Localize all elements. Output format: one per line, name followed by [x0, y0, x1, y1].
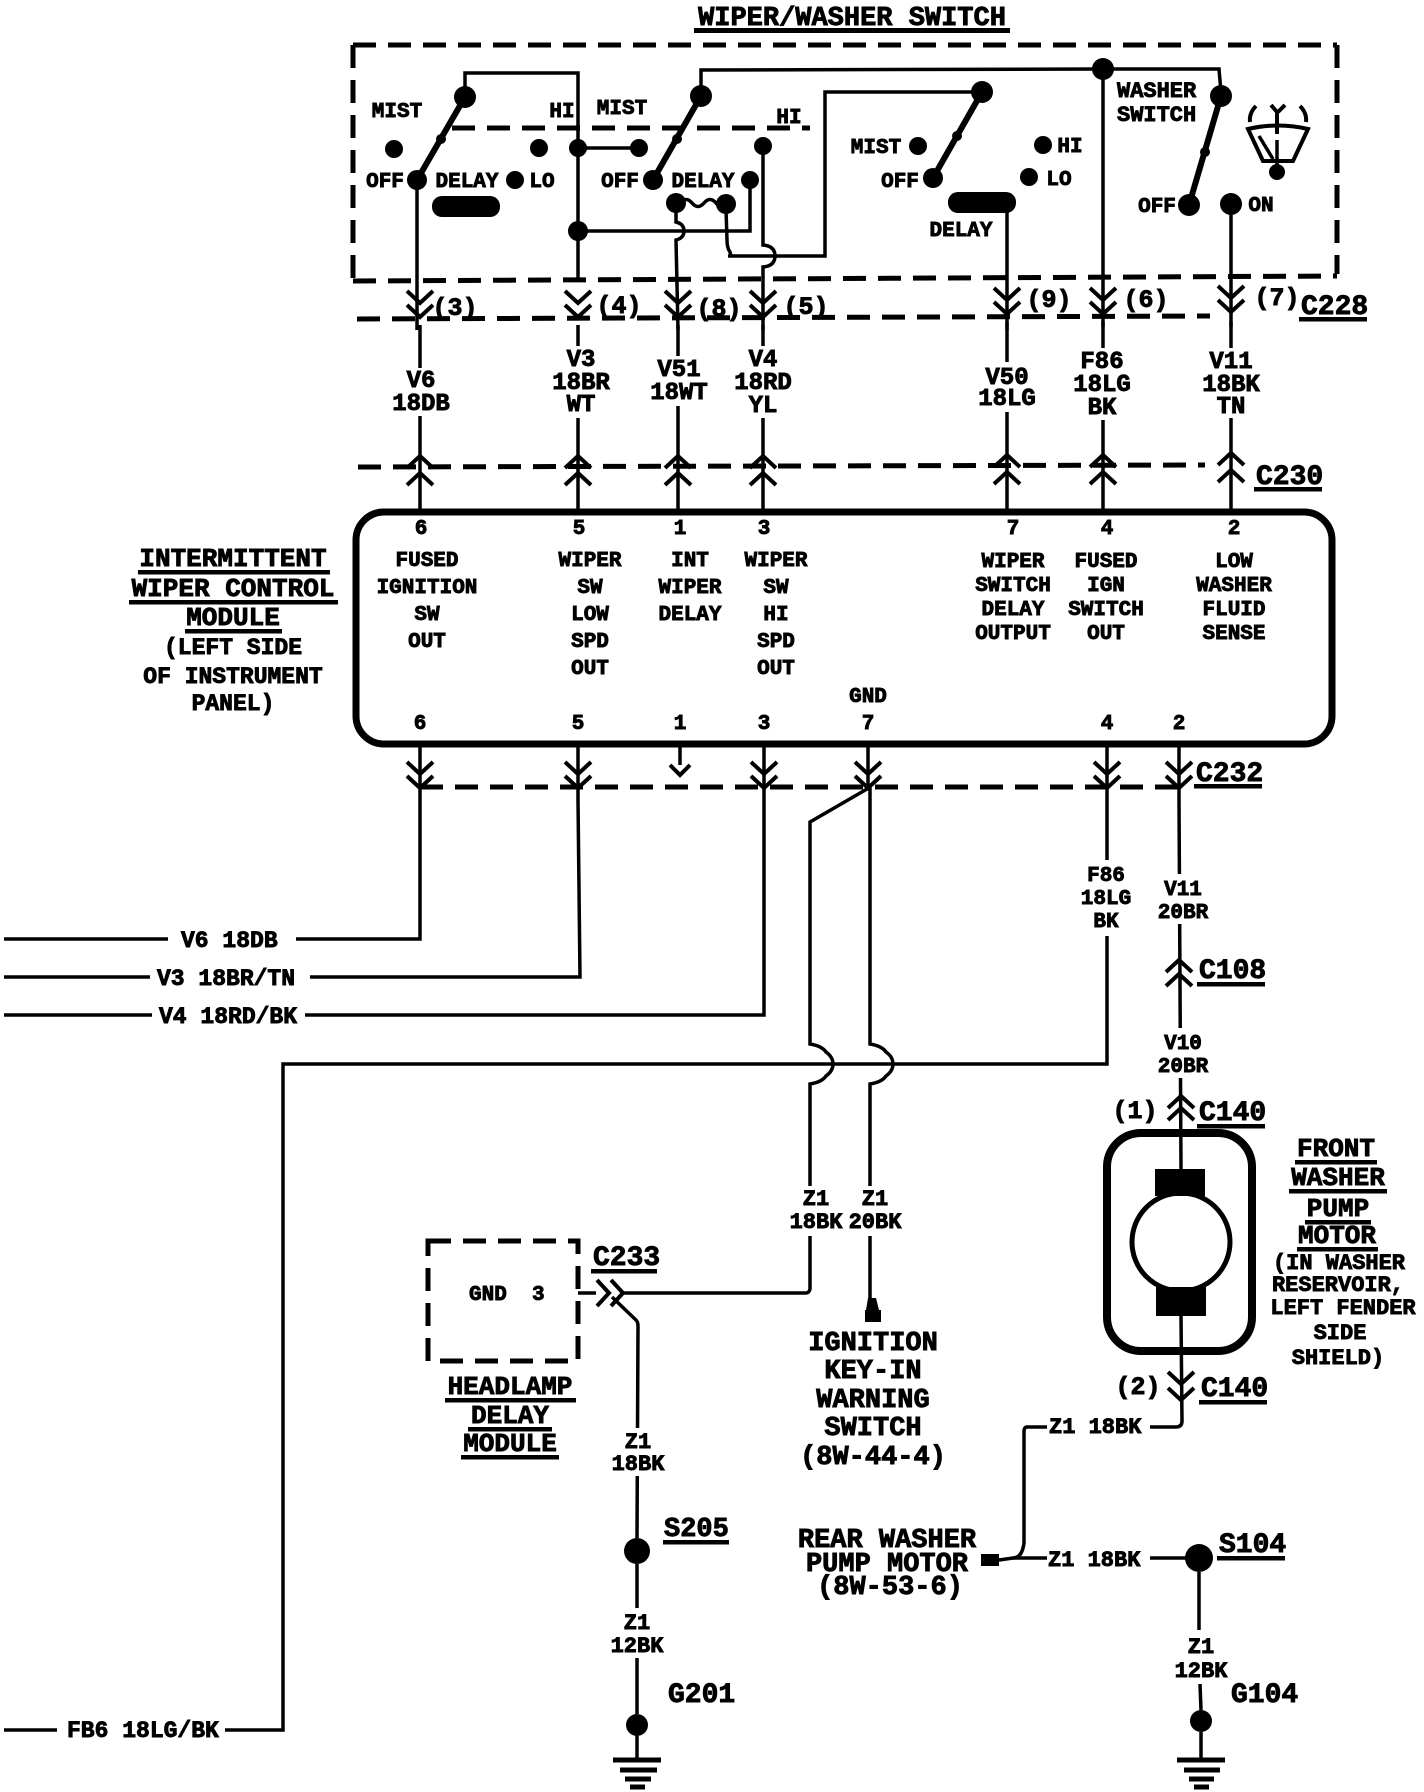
svg-text:Z1: Z1	[803, 1187, 829, 1212]
svg-text:HI: HI	[549, 101, 574, 124]
svg-text:OFF: OFF	[881, 171, 919, 194]
svg-text:DELAY: DELAY	[471, 1401, 549, 1431]
svg-text:3: 3	[758, 713, 771, 736]
svg-text:RESERVOIR,: RESERVOIR,	[1272, 1273, 1404, 1298]
svg-text:20BR: 20BR	[1158, 902, 1209, 925]
svg-text:4: 4	[1101, 518, 1114, 541]
svg-text:SPD: SPD	[757, 631, 795, 654]
svg-text:WASHER: WASHER	[1291, 1163, 1385, 1193]
svg-text:DELAY: DELAY	[671, 171, 734, 194]
svg-text:LOW: LOW	[1215, 551, 1253, 574]
svg-text:18BK: 18BK	[612, 1452, 666, 1477]
svg-text:V10: V10	[1164, 1033, 1202, 1056]
svg-text:5: 5	[573, 518, 586, 541]
svg-text:MODULE: MODULE	[463, 1429, 557, 1459]
svg-text:Z1 18BK: Z1 18BK	[1049, 1415, 1142, 1440]
svg-text:20BK: 20BK	[849, 1210, 903, 1235]
svg-text:OFF: OFF	[366, 171, 404, 194]
svg-text:OUT: OUT	[1087, 623, 1125, 646]
svg-text:HI: HI	[763, 604, 788, 627]
svg-text:(7): (7)	[1254, 284, 1299, 313]
svg-text:GND: GND	[469, 1284, 507, 1307]
svg-text:Z1 18BK: Z1 18BK	[1048, 1548, 1141, 1573]
svg-text:(5): (5)	[783, 293, 828, 322]
svg-text:HEADLAMP: HEADLAMP	[448, 1372, 573, 1402]
svg-text:V11: V11	[1164, 879, 1202, 902]
svg-text:2: 2	[1228, 518, 1241, 541]
svg-text:SWITCH: SWITCH	[1068, 599, 1144, 622]
svg-text:MODULE: MODULE	[186, 603, 280, 633]
svg-text:(8): (8)	[696, 295, 741, 324]
svg-text:Z1: Z1	[862, 1187, 888, 1212]
svg-text:OF INSTRUMENT: OF INSTRUMENT	[143, 664, 323, 690]
svg-text:MOTOR: MOTOR	[1298, 1221, 1376, 1251]
svg-text:Z1: Z1	[1188, 1635, 1214, 1660]
svg-text:(2): (2)	[1115, 1373, 1160, 1402]
svg-text:IGN: IGN	[1087, 575, 1125, 598]
svg-text:5: 5	[572, 713, 585, 736]
svg-text:V3 18BR/TN: V3 18BR/TN	[157, 966, 295, 992]
svg-text:GND: GND	[849, 686, 887, 709]
svg-text:18LG: 18LG	[1081, 888, 1131, 911]
svg-text:WT: WT	[567, 392, 596, 419]
svg-text:FB6 18LG/BK: FB6 18LG/BK	[67, 1718, 219, 1744]
svg-text:INTERMITTENT: INTERMITTENT	[139, 544, 326, 574]
svg-text:OUT: OUT	[571, 658, 609, 681]
svg-text:HI: HI	[1057, 136, 1082, 159]
svg-text:4: 4	[1101, 713, 1114, 736]
svg-text:FLUID: FLUID	[1202, 599, 1265, 622]
svg-text:F86: F86	[1087, 865, 1125, 888]
svg-text:OUT: OUT	[757, 658, 795, 681]
svg-text:Z1: Z1	[624, 1611, 650, 1636]
svg-text:V4 18RD/BK: V4 18RD/BK	[159, 1004, 297, 1030]
svg-text:PANEL): PANEL)	[192, 691, 275, 717]
svg-text:6: 6	[415, 518, 428, 541]
svg-text:12BK: 12BK	[611, 1634, 665, 1659]
svg-text:12BK: 12BK	[1175, 1659, 1229, 1684]
svg-text:DELAY: DELAY	[929, 220, 992, 243]
svg-text:(LEFT SIDE: (LEFT SIDE	[164, 635, 302, 661]
svg-text:SHIELD): SHIELD)	[1292, 1346, 1384, 1371]
svg-text:SIDE: SIDE	[1314, 1321, 1367, 1346]
svg-text:SW: SW	[577, 577, 603, 600]
svg-text:HI: HI	[776, 107, 801, 130]
svg-text:18DB: 18DB	[392, 391, 450, 418]
svg-text:INT: INT	[671, 550, 709, 573]
svg-text:SWITCH: SWITCH	[975, 575, 1051, 598]
svg-text:WIPER: WIPER	[658, 577, 721, 600]
svg-text:(3): (3)	[432, 294, 477, 323]
svg-text:WIPER: WIPER	[558, 550, 621, 573]
svg-text:WASHER: WASHER	[1117, 79, 1197, 104]
svg-text:20BR: 20BR	[1158, 1056, 1209, 1079]
svg-text:IGNITION: IGNITION	[808, 1329, 938, 1359]
svg-text:G201: G201	[668, 1680, 735, 1711]
svg-text:LO: LO	[1046, 169, 1071, 192]
svg-text:WARNING: WARNING	[816, 1386, 929, 1416]
svg-text:DELAY: DELAY	[981, 599, 1044, 622]
svg-text:YL: YL	[749, 393, 778, 420]
svg-text:(4): (4)	[596, 292, 641, 321]
svg-text:OUTPUT: OUTPUT	[975, 623, 1051, 646]
svg-text:7: 7	[1007, 518, 1020, 541]
svg-text:SWITCH: SWITCH	[1117, 103, 1196, 128]
svg-text:DELAY: DELAY	[435, 171, 498, 194]
svg-text:LOW: LOW	[571, 604, 609, 627]
svg-text:SENSE: SENSE	[1202, 623, 1265, 646]
svg-text:MIST: MIST	[851, 137, 901, 160]
svg-text:OFF: OFF	[601, 171, 639, 194]
svg-text:BK: BK	[1088, 395, 1117, 422]
svg-text:SWITCH: SWITCH	[824, 1414, 921, 1444]
svg-text:WIPER: WIPER	[744, 550, 807, 573]
svg-text:3: 3	[758, 518, 771, 541]
svg-text:OFF: OFF	[1138, 196, 1176, 219]
svg-text:SW: SW	[763, 577, 789, 600]
svg-text:IGNITION: IGNITION	[377, 577, 478, 600]
svg-text:PUMP: PUMP	[1307, 1194, 1369, 1224]
svg-text:WIPER CONTROL: WIPER CONTROL	[132, 574, 335, 604]
svg-text:6: 6	[414, 713, 427, 736]
svg-text:TN: TN	[1217, 394, 1246, 421]
svg-text:FUSED: FUSED	[395, 550, 458, 573]
svg-text:2: 2	[1173, 713, 1186, 736]
svg-text:SPD: SPD	[571, 631, 609, 654]
svg-text:(9): (9)	[1026, 286, 1071, 315]
svg-text:1: 1	[674, 713, 687, 736]
svg-text:DELAY: DELAY	[658, 604, 721, 627]
svg-text:1: 1	[674, 518, 687, 541]
svg-text:G104: G104	[1231, 1680, 1298, 1711]
svg-text:ON: ON	[1248, 195, 1273, 218]
svg-text:7: 7	[862, 713, 875, 736]
svg-text:WIPER: WIPER	[981, 551, 1044, 574]
svg-text:SW: SW	[414, 604, 440, 627]
svg-text:KEY-IN: KEY-IN	[824, 1357, 921, 1387]
svg-text:FRONT: FRONT	[1297, 1134, 1375, 1164]
svg-text:(8W-44-4): (8W-44-4)	[800, 1443, 946, 1473]
svg-text:OUT: OUT	[408, 631, 446, 654]
svg-text:MIST: MIST	[597, 98, 647, 121]
svg-text:18BK: 18BK	[790, 1210, 844, 1235]
svg-text:FUSED: FUSED	[1074, 551, 1137, 574]
svg-text:18WT: 18WT	[650, 380, 708, 407]
svg-text:(8W-53-6): (8W-53-6)	[817, 1573, 963, 1603]
svg-text:LEFT FENDER: LEFT FENDER	[1270, 1296, 1416, 1321]
svg-text:V6 18DB: V6 18DB	[181, 928, 278, 954]
svg-text:(6): (6)	[1123, 286, 1168, 315]
svg-text:WASHER: WASHER	[1196, 575, 1272, 598]
svg-text:(1): (1)	[1112, 1097, 1157, 1126]
svg-text:LO: LO	[529, 171, 554, 194]
svg-text:BK: BK	[1093, 911, 1119, 934]
svg-text:3: 3	[532, 1284, 545, 1307]
svg-text:18LG: 18LG	[978, 386, 1036, 413]
svg-text:MIST: MIST	[372, 101, 422, 124]
